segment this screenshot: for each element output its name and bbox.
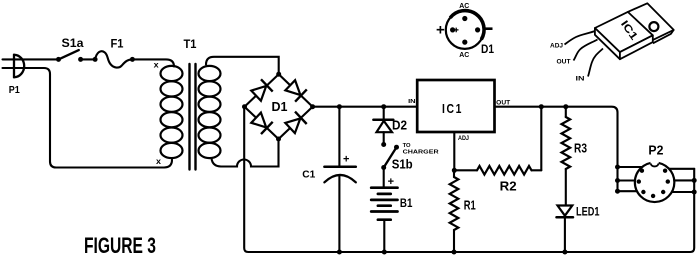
svg-text:TO: TO <box>403 143 411 149</box>
svg-text:F1: F1 <box>111 37 124 51</box>
svg-text:D1: D1 <box>272 99 288 114</box>
svg-text:+: + <box>388 176 394 188</box>
svg-text:OUT: OUT <box>557 59 571 66</box>
svg-text:B1: B1 <box>400 196 413 210</box>
svg-text:IN: IN <box>576 76 585 83</box>
svg-text:ADJ: ADJ <box>550 43 563 50</box>
svg-text:R1: R1 <box>464 198 476 213</box>
svg-text:FIGURE 3: FIGURE 3 <box>84 233 156 258</box>
svg-text:D2: D2 <box>392 119 407 133</box>
svg-text:T1: T1 <box>184 37 197 51</box>
svg-text:C1: C1 <box>302 168 315 180</box>
svg-text:+: + <box>436 22 445 39</box>
svg-text:P2: P2 <box>648 143 663 158</box>
svg-text:AC: AC <box>459 3 469 10</box>
svg-text:OUT: OUT <box>496 101 510 107</box>
svg-text:R2: R2 <box>500 179 517 194</box>
svg-text:P1: P1 <box>9 84 20 96</box>
svg-text:IC1: IC1 <box>442 101 463 116</box>
svg-text:R3: R3 <box>574 140 587 155</box>
svg-text:LED1: LED1 <box>576 205 600 219</box>
svg-text:S1b: S1b <box>392 158 413 172</box>
svg-text:ADJ: ADJ <box>458 136 469 142</box>
svg-text:CHARGER: CHARGER <box>403 150 440 156</box>
svg-text:S1a: S1a <box>62 36 84 50</box>
svg-text:x: x <box>156 156 161 166</box>
svg-text:AC: AC <box>459 52 469 59</box>
svg-text:IN: IN <box>408 99 416 105</box>
svg-text:+: + <box>343 154 349 166</box>
svg-text:x: x <box>154 60 159 70</box>
svg-text:D1: D1 <box>481 42 494 56</box>
